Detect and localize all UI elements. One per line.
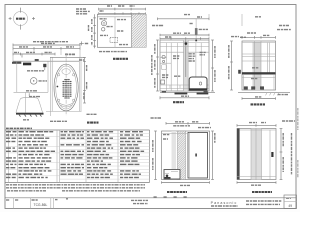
- registration circle symbol: [9, 8, 35, 30]
- upper front elevation: text smudges: [162, 52, 206, 77]
- label upper side elevation: [251, 103, 266, 105]
- upper side elevation: box: [242, 41, 276, 90]
- plan: drain core circle: [30, 78, 47, 85]
- lower side view: dark left edge: [237, 129, 240, 180]
- title block right texts: [131, 200, 148, 203]
- lower side view: right dimension lines: [280, 129, 292, 180]
- svg-text:TCG-86L: TCG-86L: [34, 203, 48, 207]
- tank detail: note under box: [99, 51, 127, 53]
- toilet seat dot grid: [57, 79, 72, 99]
- tank detail: inner top line: [97, 16, 131, 18]
- lower section view: left note: [151, 117, 162, 119]
- tank detail: small texts: [100, 19, 129, 45]
- upper front elevation: overall top dimension: [158, 14, 210, 20]
- plan right vertical dimension chain: [83, 57, 87, 103]
- tank detail: notes text block top-left: [76, 9, 90, 14]
- tank detail: inner vertical line: [114, 17, 116, 48]
- label section view: [167, 191, 187, 193]
- lower side view: bottom dimension: [237, 181, 276, 185]
- plan: note text in booth: [27, 70, 44, 72]
- toilet room: top wall line: [50, 56, 84, 58]
- lower section view: gray band: [172, 131, 177, 180]
- tank detail: circles: [101, 21, 106, 31]
- toilet bowl inner oval: [56, 66, 77, 109]
- label side view: [252, 191, 272, 193]
- upper front elevation: toilet silhouette: [189, 77, 207, 90]
- toilet bowl outer oval: [54, 64, 78, 111]
- upper side elevation: bottom dimension: [242, 97, 276, 100]
- toilet room: top dimension text: [65, 55, 84, 60]
- spec table rows: [5, 132, 150, 179]
- margin rotated text lower: [297, 160, 299, 178]
- svg-text:49: 49: [288, 204, 292, 208]
- lower side view: door handle: [271, 152, 273, 157]
- upper side elevation: dark base band: [242, 72, 276, 74]
- label plan view: [87, 122, 99, 124]
- upper side elevation: inner lines: [242, 41, 276, 90]
- upper side elevation: top dimension line: [242, 33, 276, 39]
- plan: wall line: [13, 60, 80, 62]
- tank detail: dashed rect: [110, 38, 118, 43]
- lower section view: inner texts: [163, 135, 170, 139]
- notes under table: [6, 185, 145, 191]
- front elevation: dome door-swing: [16, 93, 43, 113]
- tank detail: wall hatch band: [132, 14, 147, 47]
- upper side elevation: feet: [244, 75, 275, 90]
- upper front elevation: operation circles: [161, 55, 166, 84]
- dimension line 2: [13, 47, 80, 50]
- plan: paper holder: [35, 59, 39, 61]
- lower section view: door: [188, 133, 208, 179]
- lower side view: top dimensions: [237, 121, 295, 127]
- table bottom: [5, 182, 150, 184]
- table note above: [6, 127, 32, 129]
- front elevation: scale note: [23, 119, 29, 121]
- upper side elevation: top left note: [231, 36, 246, 39]
- toilet centerline: [65, 53, 67, 116]
- upper front elevation: door post line: [190, 19, 198, 40]
- upper front elevation: right dimension line: [211, 40, 215, 91]
- upper side elevation: inner text: [251, 68, 259, 79]
- lower section view: hatch band: [178, 131, 186, 180]
- upper front elevation: bottom dimension: [160, 96, 209, 99]
- upper front elevation: inner lines: [160, 40, 209, 91]
- svg-text:Panasonic: Panasonic: [211, 201, 238, 205]
- table outer top: [5, 129, 150, 131]
- upper side elevation: left dimension line: [229, 41, 233, 90]
- lower side view: gray band: [251, 129, 262, 180]
- plan view bottom dim text: [50, 114, 97, 121]
- upper front elevation: ground hatch bars: [160, 91, 215, 94]
- sheet number box: [284, 195, 297, 209]
- dimension line 3: [13, 52, 75, 55]
- plan: stop valve symbol: [43, 64, 46, 70]
- tank detail: left vertical dimension line: [89, 14, 97, 48]
- lower side view: inner lines: [237, 129, 276, 180]
- lower side view: box: [237, 129, 276, 180]
- upper front elevation: top dimension lines: [160, 33, 209, 39]
- margin rotated text upper: [297, 108, 299, 130]
- lower section view: toilet section: [164, 170, 180, 180]
- upper front elevation: box: [160, 40, 209, 91]
- label front elevation: [173, 101, 184, 103]
- lower section view: left dimension line: [153, 131, 157, 180]
- upper side elevation: top-right note texts: [277, 26, 291, 30]
- upper front elevation: center gray band: [183, 40, 188, 91]
- upper front elevation: top note texts: [152, 26, 208, 30]
- lower section view: right dimension: [211, 131, 215, 180]
- toilet bowl bottom arcs: [46, 103, 82, 112]
- lower section view: ceiling line: [162, 133, 189, 135]
- dimension drop lines: [13, 46, 80, 62]
- upper front elevation: lock dark dot: [185, 42, 188, 45]
- toilet room: left wall double line: [50, 57, 52, 116]
- toilet bolt holes: [57, 74, 75, 102]
- toilet room: right wall double line: [79, 57, 81, 111]
- upper side elevation: ground line: [238, 93, 290, 96]
- front elevation: ground hatch bar: [16, 113, 44, 117]
- table column lines: [8, 130, 10, 183]
- sheet border frame: [5, 5, 296, 209]
- plan view dimension title text: [33, 41, 68, 43]
- lower section view: top dimensions: [166, 122, 211, 128]
- lower section view: bottom dimension: [162, 181, 210, 185]
- revision marks: [154, 196, 188, 198]
- upper front elevation: left dimension line: [152, 40, 159, 91]
- plan: booth inner text: [26, 90, 37, 92]
- upper side elevation: left door stop: [238, 70, 241, 74]
- table right edge: [149, 130, 151, 183]
- dimension line 1: [13, 43, 80, 46]
- toilet tank top ellipse: [62, 69, 70, 75]
- plan: wall hatch bar right: [23, 63, 31, 66]
- title block: [5, 198, 296, 209]
- upper side elevation: leader line: [242, 14, 261, 26]
- plan: wall hatch bar left: [12, 62, 21, 64]
- tank detail: target cross: [79, 41, 89, 45]
- spec table: [5, 128, 150, 182]
- tank detail: box: [97, 14, 131, 47]
- maker sub line: [211, 205, 238, 207]
- plan: booth walls: [14, 61, 49, 92]
- tank detail: top dimension lines: [99, 6, 146, 15]
- upper side elevation: gray band: [253, 41, 262, 90]
- lower section view: box: [162, 131, 210, 180]
- label tank view: [113, 58, 128, 60]
- address block: [246, 201, 282, 204]
